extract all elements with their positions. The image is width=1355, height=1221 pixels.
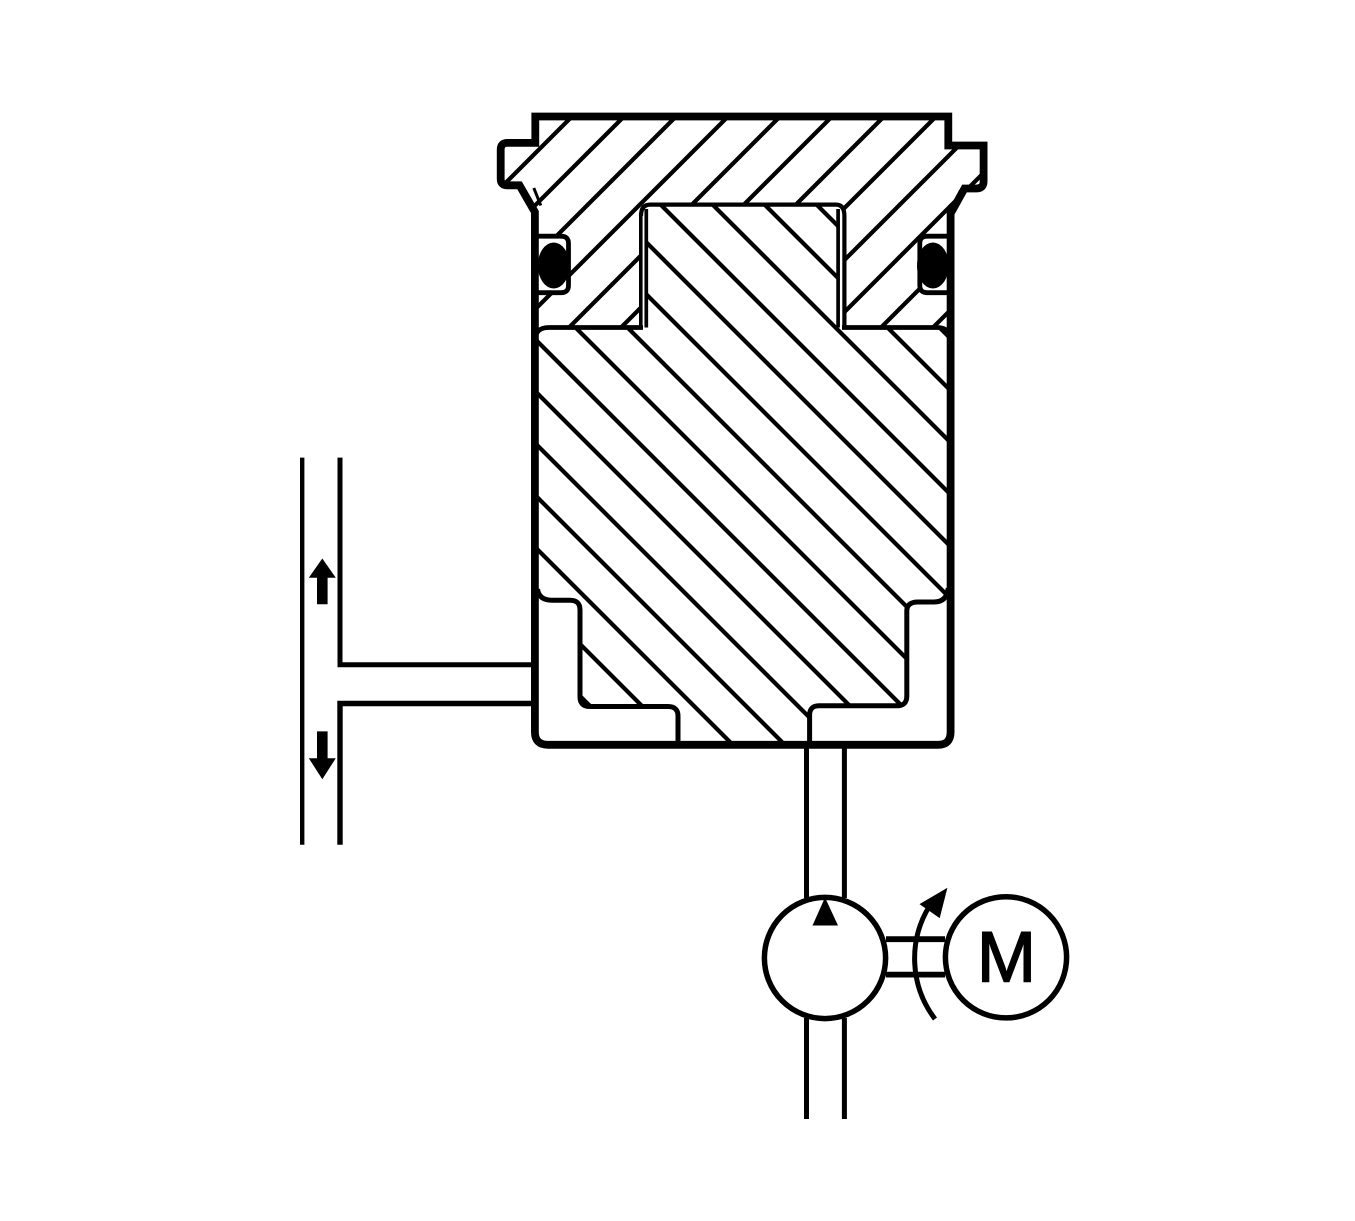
suction line right vertical wall upper bbox=[340, 458, 535, 665]
piston neck right edge line bbox=[836, 209, 840, 328]
O-ring seal right bbox=[917, 243, 949, 289]
pump circle bbox=[764, 897, 885, 1018]
piston lower-left profile line bbox=[538, 589, 679, 744]
piston neck top interface line bbox=[641, 205, 844, 328]
cap bottom face line left bbox=[535, 328, 643, 342]
drive shaft lines bbox=[886, 939, 945, 974]
chamfer detail line left bbox=[534, 188, 541, 206]
suction line left vertical wall bbox=[300, 458, 304, 845]
cap insert cross-section hatched region bbox=[501, 117, 984, 328]
piston cross-section hatched region bbox=[538, 205, 949, 745]
svg-text:M: M bbox=[977, 919, 1036, 998]
up flow arrow bbox=[309, 559, 336, 605]
piston neck left edge line bbox=[644, 209, 648, 328]
down flow arrow bbox=[309, 731, 336, 779]
O-ring seal left bbox=[538, 243, 570, 289]
cap bottom face line right bbox=[842, 328, 951, 342]
discharge pipe upper segment bbox=[807, 747, 845, 898]
discharge pipe lower segment bbox=[807, 1018, 845, 1119]
reservoir housing outer profile bbox=[501, 117, 984, 745]
piston lower-right profile line bbox=[810, 588, 949, 744]
motor circle bbox=[945, 897, 1066, 1018]
chamfer detail line right bbox=[950, 191, 961, 213]
O-ring groove left bbox=[534, 236, 569, 293]
rotation arrow arc bbox=[915, 906, 935, 1019]
O-ring groove right bbox=[920, 236, 952, 293]
rotation arrow head bbox=[920, 888, 948, 918]
cap bore edge left line bbox=[639, 214, 643, 328]
suction line right vertical wall lower bbox=[340, 704, 535, 845]
pump flow direction triangle bbox=[813, 898, 839, 926]
